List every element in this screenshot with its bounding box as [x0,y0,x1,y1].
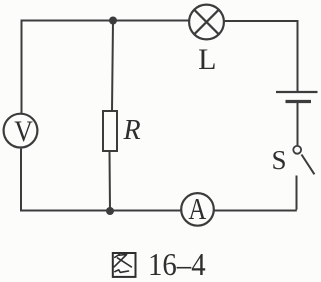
wire: top horizontal, right segment [225,20,298,22]
svg-text:V: V [14,115,33,148]
wire: battery to switch [297,103,299,145]
wire: left vertical, top (to voltmeter) [21,20,23,114]
wire: middle branch, upper [112,21,113,112]
voltmeter V [4,114,38,149]
battery: long plate (positive) [276,91,318,93]
wire: switch to bottom-right corner [296,176,298,210]
caption: 图 character (drawn) [113,253,136,277]
wire: bottom horizontal [22,210,297,212]
label R [123,115,141,146]
wire: right vertical, top (to battery) [297,20,299,92]
svg-text:R: R [123,115,141,146]
svg-text:16–4: 16–4 [148,246,206,282]
wire: middle branch, lower [109,151,112,211]
svg-text:S: S [272,145,287,175]
wire: top horizontal, left segment [22,20,189,22]
node: bottom junction dot [106,207,114,215]
svg-text:A: A [188,193,207,227]
switch S: open blade [302,155,315,175]
wire: left vertical, bottom [20,149,22,212]
resistor R (box) [103,111,117,151]
lamp L (circle with X) [189,5,224,40]
caption: 16-4 [148,246,206,282]
label L [198,43,216,76]
switch S: pivot circle [293,146,301,154]
ammeter A [181,193,214,227]
svg-text:L: L [198,43,216,76]
node: top junction dot [109,17,117,25]
label S [272,145,287,175]
battery: short plate (negative) [286,100,312,103]
